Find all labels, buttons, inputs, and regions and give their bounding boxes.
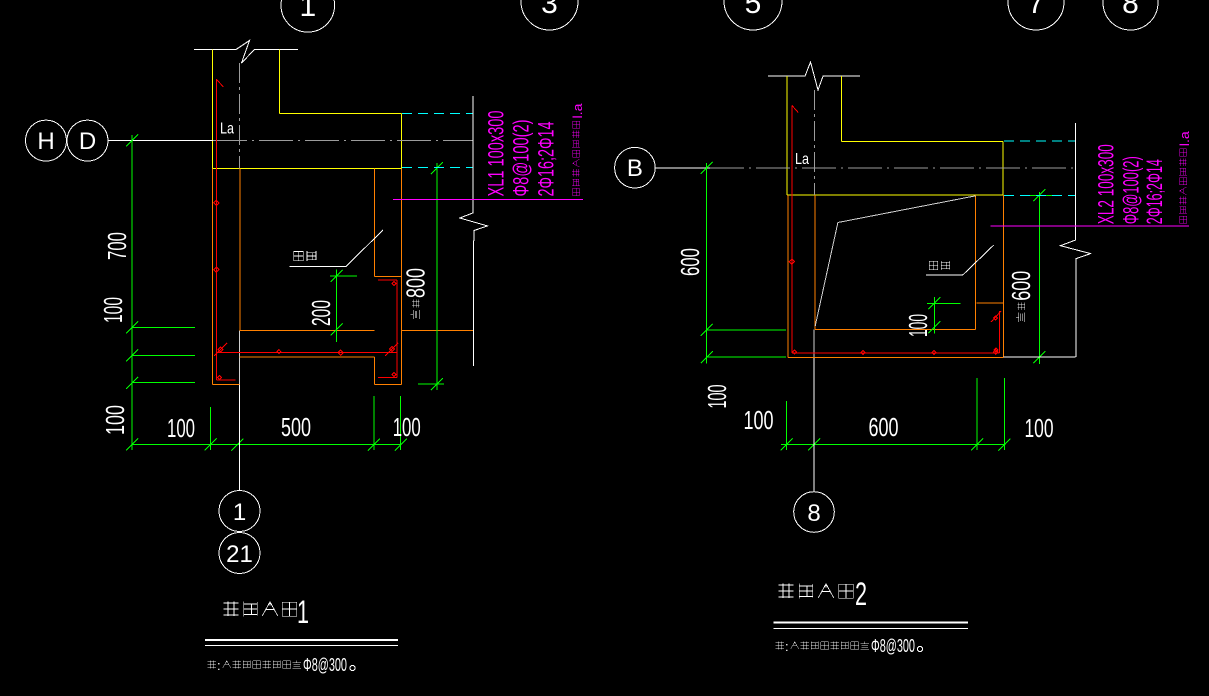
svg-text:1: 1: [297, 594, 309, 630]
D1 cut line with break: [460, 96, 488, 366]
D2 note: [776, 636, 923, 656]
svg-text:La: La: [795, 151, 809, 168]
svg-text:100: 100: [100, 405, 130, 435]
svg-text:Φ8@100(2): Φ8@100(2): [1118, 156, 1143, 224]
svg-text::: :: [217, 658, 221, 673]
D1 dim 200 green: [330, 270, 357, 343]
svg-text:2Φ16;2Φ14: 2Φ16;2Φ14: [1142, 159, 1167, 224]
grid bubble 5 top: [724, 0, 782, 30]
svg-text:l.a: l.a: [1177, 130, 1192, 146]
svg-text:Φ8@300: Φ8@300: [303, 655, 347, 675]
D1 centerline dashdot: [213, 140, 473, 142]
D2 centerline dashdot: [710, 167, 1075, 169]
D1 grid line 1 through box light: [238, 330, 240, 384]
svg-text:100: 100: [702, 385, 732, 409]
D2 title: [778, 576, 867, 612]
svg-text:21: 21: [226, 541, 253, 568]
D2 title rule: [774, 622, 969, 624]
svg-text:200: 200: [306, 300, 336, 326]
svg-text:100: 100: [393, 412, 421, 442]
svg-text:500: 500: [281, 412, 311, 442]
D1 title rule: [205, 639, 398, 641]
grid bubble 1 top: [281, 0, 335, 32]
D2 wall outline diagonal white: [815, 196, 976, 326]
svg-text:3: 3: [541, 0, 558, 20]
svg-text:600: 600: [1006, 271, 1036, 301]
svg-text:XL2 100x300: XL2 100x300: [1094, 144, 1119, 224]
svg-text:1: 1: [233, 499, 246, 526]
svg-text:XL1 100x300: XL1 100x300: [484, 111, 509, 197]
svg-text:600: 600: [869, 412, 899, 442]
D2 grid line 8 through box light: [813, 330, 815, 358]
svg-text:100: 100: [167, 413, 195, 443]
D1 title: [223, 594, 309, 630]
D1 rebar step J red: [378, 280, 397, 377]
D2 text beam length 600 rotated: [1006, 271, 1036, 322]
D2 wall label leader: [926, 245, 994, 275]
D2 rebar step J red: [991, 311, 1001, 353]
D2 centerline B white segment: [656, 167, 710, 169]
D1 parapet outline yellow: [213, 50, 402, 169]
D2 dim 100 inner green: [927, 297, 960, 333]
grid bubble 21 bottom: [219, 533, 260, 574]
D1 rebar main red: [214, 79, 398, 380]
D2 hidden slab lines cyan: [1004, 140, 1075, 142]
svg-text:Φ8@300: Φ8@300: [871, 636, 915, 656]
D2 parapet outline yellow: [787, 76, 1003, 195]
svg-text:7: 7: [1028, 0, 1045, 20]
D1 bottom dimension line: [132, 396, 407, 451]
D2 slab bottom line white: [1003, 356, 1075, 358]
D2 top slab edge with break: [768, 62, 860, 90]
svg-text:2: 2: [855, 576, 867, 612]
svg-text:2Φ16;2Φ14: 2Φ16;2Φ14: [534, 122, 559, 197]
D2 grid line 8 vertical dashdot upper: [814, 90, 816, 195]
svg-text:100: 100: [1025, 413, 1054, 443]
grid bubble B: [615, 147, 656, 188]
grid bubble 8 bottom: [794, 492, 835, 533]
D1 centerline H-D white segment: [108, 140, 213, 142]
D2 bottom dimension line: [781, 378, 1011, 451]
D1 note: [208, 655, 355, 675]
grid bubble 3 top: [521, 0, 578, 30]
svg-text:100: 100: [903, 314, 933, 337]
D1 text brick wall: [294, 251, 316, 261]
svg-text:Φ8@100(2): Φ8@100(2): [509, 120, 534, 197]
D2 rebar main red: [789, 105, 999, 354]
D1 dim beam length 800 green: [418, 162, 444, 390]
svg-text:100: 100: [98, 297, 128, 323]
D2 grid line 8 below box: [813, 358, 815, 492]
D2 left dimension line vertical: [701, 162, 786, 363]
svg-text:8: 8: [1122, 0, 1139, 20]
grid bubble 1 bottom: [219, 491, 260, 532]
svg-text:700: 700: [102, 232, 132, 260]
grid bubble H: [26, 120, 67, 161]
D1 grid line 1 below box: [238, 385, 240, 491]
svg-text:D: D: [79, 128, 96, 155]
D1 beam leader magenta: [393, 198, 583, 200]
grid bubble 7 top: [1008, 0, 1064, 30]
D1 beam note rotated small: [570, 103, 585, 196]
D2 dim beam length 600 green: [1022, 189, 1057, 364]
D1 wall label leader: [289, 230, 383, 267]
D2 text brick wall: [929, 261, 949, 270]
D1 top slab edge with break: [194, 41, 298, 64]
D2 molding concrete outline orange: [788, 195, 1003, 358]
svg-text:100: 100: [744, 405, 774, 435]
svg-text:H: H: [37, 128, 54, 155]
D1 text beam length 800 rotated: [401, 268, 431, 319]
svg-text:La: La: [220, 121, 234, 138]
svg-text:B: B: [627, 155, 643, 182]
grid bubble 8 top: [1103, 0, 1158, 30]
svg-text::: :: [785, 639, 789, 654]
svg-text:1: 1: [299, 0, 316, 23]
D2 beam leader magenta: [991, 225, 1189, 227]
svg-text:800: 800: [401, 268, 431, 298]
D1 grid line 1 vertical dashdot upper: [238, 63, 240, 169]
svg-text:5: 5: [745, 0, 762, 20]
D1 hidden slab lines cyan: [402, 113, 473, 115]
grid bubble D: [67, 120, 108, 161]
D1 molding concrete outline orange: [213, 169, 473, 385]
svg-text:600: 600: [675, 248, 705, 276]
D1 left dimension line vertical: [126, 135, 195, 451]
svg-text:8: 8: [807, 500, 820, 527]
D2 cut line with break: [1060, 123, 1090, 357]
svg-text:l.a: l.a: [570, 103, 585, 119]
D2 beam note rotated small: [1177, 130, 1192, 223]
